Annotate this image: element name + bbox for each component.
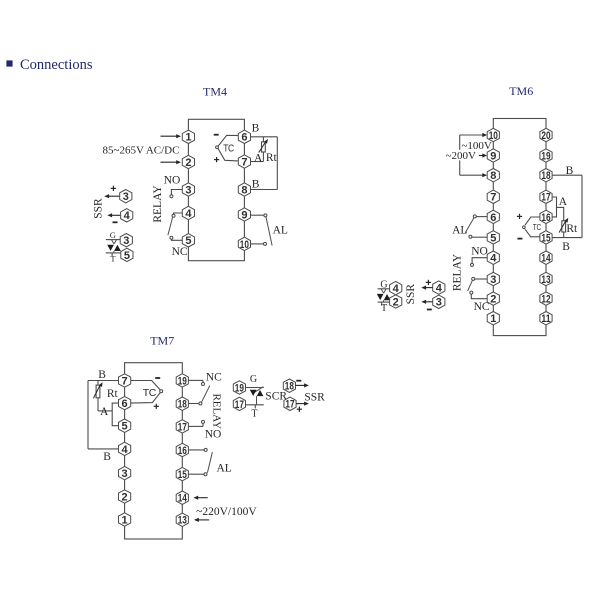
svg-text:3: 3 (123, 235, 129, 247)
svg-text:NO: NO (164, 174, 181, 186)
svg-text:17: 17 (285, 399, 294, 411)
svg-text:15: 15 (541, 232, 550, 244)
svg-text:3: 3 (185, 184, 191, 196)
svg-text:B: B (252, 179, 260, 191)
svg-text:4: 4 (185, 208, 192, 220)
svg-text:SSR: SSR (405, 284, 417, 305)
svg-text:TM4: TM4 (203, 85, 227, 99)
svg-text:16: 16 (541, 212, 550, 224)
svg-text:RELAY: RELAY (152, 185, 164, 223)
svg-text:AL: AL (273, 225, 288, 237)
svg-text:AL: AL (217, 462, 232, 474)
svg-text:13: 13 (541, 274, 550, 286)
svg-text:6: 6 (122, 398, 128, 410)
svg-text:TC: TC (533, 223, 542, 232)
svg-text:T: T (251, 408, 257, 419)
svg-text:18: 18 (541, 170, 550, 182)
svg-text:8: 8 (241, 184, 247, 196)
svg-text:4: 4 (436, 283, 443, 295)
svg-text:~220V/100V: ~220V/100V (196, 506, 257, 518)
svg-text:2: 2 (122, 491, 128, 503)
svg-text:4: 4 (490, 253, 497, 265)
svg-text:4: 4 (393, 283, 400, 295)
svg-text:10: 10 (489, 130, 498, 142)
svg-text:1: 1 (490, 313, 496, 325)
svg-text:NO: NO (471, 245, 488, 257)
svg-text:5: 5 (124, 250, 130, 262)
svg-text:5: 5 (122, 421, 128, 433)
svg-text:1: 1 (185, 132, 191, 144)
svg-text:3: 3 (490, 274, 496, 286)
svg-text:6: 6 (490, 212, 496, 224)
svg-text:Connections: Connections (20, 57, 93, 73)
svg-text:NO: NO (205, 429, 222, 441)
svg-text:7: 7 (122, 375, 128, 387)
svg-text:18: 18 (285, 381, 294, 393)
svg-text:15: 15 (178, 469, 187, 481)
svg-text:7: 7 (241, 156, 247, 168)
svg-text:2: 2 (393, 296, 399, 308)
svg-text:2: 2 (490, 294, 496, 306)
svg-text:5: 5 (185, 235, 191, 247)
svg-text:TC: TC (223, 144, 234, 155)
svg-text:9: 9 (490, 150, 496, 162)
svg-text:10: 10 (240, 239, 249, 251)
svg-text:3: 3 (123, 191, 129, 203)
svg-text:19: 19 (235, 382, 244, 394)
svg-text:17: 17 (541, 192, 550, 204)
svg-text:17: 17 (235, 399, 244, 411)
svg-text:85~265V AC/DC: 85~265V AC/DC (103, 145, 180, 157)
svg-text:14: 14 (541, 253, 551, 265)
svg-text:B: B (252, 123, 260, 135)
svg-text:T: T (381, 303, 387, 314)
svg-text:TM6: TM6 (509, 84, 533, 98)
svg-text:~200V: ~200V (446, 150, 476, 162)
svg-text:B: B (562, 241, 570, 253)
svg-text:1: 1 (122, 514, 128, 526)
svg-text:17: 17 (178, 421, 187, 433)
svg-text:4: 4 (124, 210, 131, 222)
svg-text:6: 6 (241, 132, 247, 144)
svg-text:18: 18 (178, 399, 187, 411)
svg-text:9: 9 (241, 209, 247, 221)
svg-text:4: 4 (122, 444, 129, 456)
svg-text:RELAY: RELAY (452, 253, 464, 291)
svg-text:B: B (98, 369, 106, 381)
svg-text:G: G (250, 374, 257, 385)
svg-text:8: 8 (490, 170, 496, 182)
svg-text:A: A (254, 152, 263, 164)
svg-text:G: G (110, 230, 116, 240)
svg-text:11: 11 (541, 313, 550, 325)
svg-text:19: 19 (178, 375, 187, 387)
svg-text:A: A (559, 196, 568, 208)
svg-text:7: 7 (490, 192, 496, 204)
svg-text:12: 12 (541, 294, 550, 306)
svg-text:Rt: Rt (266, 152, 278, 164)
svg-text:2: 2 (185, 157, 191, 169)
svg-text:19: 19 (541, 150, 550, 162)
svg-text:A: A (100, 406, 109, 418)
svg-text:B: B (103, 451, 111, 463)
svg-text:Rt: Rt (107, 388, 119, 400)
svg-text:14: 14 (178, 493, 188, 505)
svg-text:SSR: SSR (93, 198, 105, 219)
svg-text:13: 13 (178, 515, 187, 527)
svg-text:3: 3 (436, 297, 442, 309)
svg-text:3: 3 (122, 468, 128, 480)
svg-text:20: 20 (541, 130, 550, 142)
svg-text:T: T (110, 254, 116, 264)
svg-text:TC: TC (143, 388, 156, 399)
svg-text:NC: NC (172, 246, 188, 258)
svg-text:TM7: TM7 (150, 334, 174, 348)
svg-text:16: 16 (178, 445, 187, 457)
svg-text:NC: NC (206, 371, 222, 383)
svg-text:Rt: Rt (566, 223, 578, 235)
svg-text:RELAY: RELAY (211, 393, 223, 429)
svg-text:5: 5 (490, 232, 496, 244)
svg-text:SSR: SSR (304, 391, 325, 403)
svg-text:AL: AL (452, 225, 467, 237)
